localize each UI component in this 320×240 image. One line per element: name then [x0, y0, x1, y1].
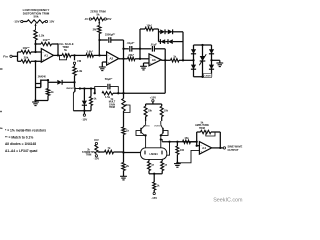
resistor 1k [90, 89, 97, 111]
terminal FM [73, 55, 81, 66]
terminal +15V [150, 95, 157, 104]
transistor 2N2907 [66, 82, 80, 110]
svg-text:1k: 1k [126, 129, 129, 133]
svg-text:+15V: +15V [150, 95, 157, 99]
wire [139, 29, 141, 59]
resistor 1k [122, 127, 130, 135]
potentiometer full scale trim 5k [60, 54, 72, 60]
potentiometer 50k distortion trim [13, 20, 54, 30]
svg-text:2N2907: 2N2907 [66, 88, 74, 90]
speck [0, 127, 3, 130]
svg-text:1k: 1k [51, 90, 54, 94]
watermark SeekIC.com [213, 197, 243, 203]
node [139, 48, 141, 50]
svg-text:1.2k: 1.2k [39, 34, 45, 38]
node [153, 173, 155, 175]
speck [0, 68, 3, 70]
ground [120, 176, 127, 180]
wire collector row [80, 89, 95, 94]
svg-text:-15: -15 [84, 17, 88, 21]
wire [57, 44, 59, 55]
wire [212, 147, 224, 149]
svg-text:TRIM: TRIM [86, 155, 92, 157]
svg-text:TRIM: TRIM [199, 127, 205, 130]
svg-text:TRIM: TRIM [109, 106, 115, 109]
wire [196, 132, 198, 142]
svg-text:3300pF*: 3300pF* [105, 33, 116, 37]
wire [182, 32, 184, 61]
wire [196, 142, 198, 146]
ground bridge [212, 60, 224, 66]
wire [123, 59, 125, 99]
node [160, 138, 162, 140]
svg-text:-15V: -15V [151, 196, 157, 200]
svg-text:100: 100 [180, 148, 185, 152]
diode drain [48, 80, 75, 85]
node [47, 79, 49, 81]
svg-text:15V: 15V [49, 20, 54, 24]
bridge top rail [194, 44, 212, 46]
transistor 2N3906 right [154, 121, 168, 148]
ground A2 noninverting [99, 62, 107, 71]
resistor 10k left [144, 104, 152, 121]
label: zero trim [90, 9, 106, 16]
note: match 0.1% [5, 135, 33, 139]
node [90, 87, 92, 89]
node [83, 110, 85, 112]
diode pair top (series, right) [159, 29, 184, 34]
potentiometer gain trim [122, 99, 130, 113]
resistor 2k [122, 153, 130, 177]
wire [162, 141, 197, 143]
node [168, 141, 170, 143]
svg-text:10k**: 10k** [22, 46, 30, 50]
svg-text:OUTPUT: OUTPUT [228, 148, 239, 152]
svg-text:10k*: 10k* [146, 23, 152, 27]
wire [123, 40, 125, 59]
svg-text:4.3k: 4.3k [77, 69, 83, 73]
node [176, 162, 178, 164]
op-amp A1 [41, 49, 53, 63]
wire [161, 59, 170, 61]
terminal -15V [82, 111, 88, 122]
node [192, 59, 194, 61]
resistor 10k** feedback A1 [36, 38, 59, 46]
wire [146, 103, 162, 105]
resistor 47 right emitter [161, 159, 168, 173]
svg-text:All diodes = 1N4148: All diodes = 1N4148 [5, 142, 36, 146]
resistor 1.6k* [86, 50, 107, 58]
wire [35, 61, 37, 100]
svg-text:15V: 15V [94, 138, 99, 142]
capacitor 3300pF* feedback A2 [100, 33, 124, 43]
wire [124, 152, 141, 154]
svg-text:2N4340: 2N4340 [38, 75, 47, 78]
wire [164, 49, 166, 61]
node [34, 60, 36, 62]
resistor 10k* limiter [140, 23, 159, 30]
wire [98, 34, 100, 56]
node: A2 inverting input [98, 54, 100, 56]
node [182, 59, 184, 61]
capacitor 50uF* [95, 77, 119, 93]
wire [161, 140, 162, 142]
wire LM394 left base [140, 152, 142, 154]
node [73, 81, 75, 83]
resistor 20k* [128, 53, 150, 61]
node [73, 54, 75, 56]
svg-text:5k: 5k [96, 13, 100, 17]
svg-text:1.6k*: 1.6k* [86, 50, 93, 54]
wire [123, 135, 125, 153]
svg-text:-15V: -15V [13, 20, 19, 24]
label box LM329 [204, 73, 212, 77]
node [117, 92, 119, 94]
svg-text:A2: A2 [109, 57, 113, 61]
ground A3 noninverting [140, 63, 149, 70]
node [196, 145, 198, 147]
terminal -15V tail [151, 192, 157, 199]
wire [17, 52, 19, 61]
wire [149, 173, 162, 175]
potentiometer amplitude trim 5k [197, 130, 221, 136]
label: low frequency distortion trim [23, 8, 50, 19]
node: collector row [79, 87, 81, 89]
svg-text:-15V: -15V [82, 117, 88, 121]
wire [119, 58, 128, 60]
resistor 4.3k [73, 67, 83, 83]
wire A3 output down [164, 60, 166, 93]
ground jfet [32, 102, 39, 106]
capacitor .01uF* [124, 41, 141, 51]
label: symmetry trim [82, 150, 95, 157]
node [34, 99, 36, 101]
resistor 1.2k [34, 30, 45, 40]
svg-text:10k**: 10k** [43, 38, 51, 42]
node [122, 48, 124, 50]
resistor 1.5k [102, 92, 165, 99]
svg-text:** = Match to 0.1%: ** = Match to 0.1% [5, 135, 33, 139]
svg-text:SeekIC.com: SeekIC.com [213, 197, 243, 203]
speck [0, 111, 2, 113]
resistor 10k right [160, 104, 168, 121]
svg-text:A1: A1 [44, 53, 48, 57]
svg-text:A4: A4 [202, 146, 206, 150]
wire [197, 145, 200, 147]
node [196, 141, 198, 143]
wire [191, 141, 197, 143]
wire [35, 40, 37, 52]
wire [54, 54, 63, 56]
wire LM394 right collector [167, 142, 170, 155]
transistor 2N3906 left [136, 121, 150, 148]
node: A1 summing feedback [34, 43, 36, 45]
dual transistor LM394 [141, 148, 167, 160]
diode to -15V rail [82, 89, 87, 111]
note: LF347 [5, 149, 37, 153]
svg-text:2N3906: 2N3906 [154, 126, 161, 128]
node [139, 58, 141, 60]
svg-text:15V: 15V [107, 17, 112, 21]
node [94, 92, 96, 94]
ground [174, 164, 181, 168]
svg-text:.01μF*: .01μF* [127, 41, 135, 45]
svg-text:1k: 1k [173, 55, 176, 59]
resistor 20k input [18, 56, 42, 64]
svg-text:A1–A4 = LF347 quad: A1–A4 = LF347 quad [5, 149, 37, 153]
input terminal Fin [3, 55, 17, 59]
resistor 100 to ground [176, 142, 185, 163]
diode bridge right arm [209, 45, 214, 77]
resistor 1k [171, 55, 194, 63]
svg-text:.01μF: .01μF [150, 43, 157, 47]
svg-text:2k: 2k [126, 164, 129, 168]
wire [73, 110, 91, 112]
wire [36, 100, 49, 102]
op-amp A3 [149, 54, 161, 66]
resistor 7k wiper [98, 146, 124, 154]
note: diodes [5, 142, 36, 146]
resistor 1k drain load [46, 82, 54, 100]
capacitor .01uF A3 integrator [140, 43, 165, 52]
svg-text:15k: 15k [184, 136, 189, 140]
wire [158, 29, 160, 42]
zener LM329 [199, 45, 206, 77]
svg-text:LM394: LM394 [150, 152, 159, 156]
node: A3 output [164, 59, 166, 61]
node: A1 output [57, 54, 59, 56]
label: full scale trim [57, 42, 73, 52]
node [98, 39, 100, 41]
svg-text:LM329: LM329 [205, 76, 211, 78]
potentiometer symmetry trim [94, 138, 100, 160]
svg-text:* = 1% metal-film resistors: * = 1% metal-film resistors [5, 129, 46, 133]
node [219, 147, 221, 149]
node [176, 141, 178, 143]
label: amplitude trim [195, 121, 209, 130]
resistor 47 left emitter [148, 159, 155, 173]
diode bridge left arm [191, 45, 196, 77]
wire drain [41, 79, 48, 81]
svg-text:50μF*: 50μF* [105, 77, 114, 81]
svg-text:FM: FM [77, 59, 81, 63]
svg-text:10k: 10k [164, 110, 169, 113]
label: mult gain trim [109, 98, 116, 109]
svg-text:50k: 50k [33, 15, 38, 19]
svg-text:10k: 10k [148, 110, 153, 113]
resistor 2M [93, 26, 101, 34]
svg-text:Fin: Fin [3, 55, 8, 59]
resistor 10k** input [18, 46, 42, 54]
node [210, 59, 212, 61]
op-amp A2 [107, 52, 119, 65]
svg-text:A3: A3 [152, 58, 156, 62]
wire [123, 111, 125, 127]
diode pair bottom (series, left) [159, 39, 184, 44]
potentiometer zero trim 5k [84, 17, 112, 26]
node [83, 87, 85, 89]
node [122, 92, 124, 94]
terminal sine wave output [223, 145, 242, 153]
resistor 15k [183, 136, 191, 143]
node [122, 151, 124, 153]
svg-text:20k*: 20k* [128, 53, 134, 57]
bridge bottom rail [194, 76, 212, 78]
wire A4 noninverting return [177, 150, 199, 162]
op-amp A4 [199, 142, 211, 155]
svg-text:20k: 20k [24, 56, 29, 60]
wire [219, 132, 221, 148]
node: A2 output [122, 58, 124, 60]
note: 1% resistors [5, 129, 46, 133]
wire [71, 54, 86, 56]
svg-text:-15V: -15V [94, 156, 100, 160]
resistor 1k tail [153, 174, 160, 193]
jfet 2N4340 [36, 75, 47, 87]
node [34, 51, 36, 53]
svg-text:SINE WAVE: SINE WAVE [228, 145, 243, 149]
